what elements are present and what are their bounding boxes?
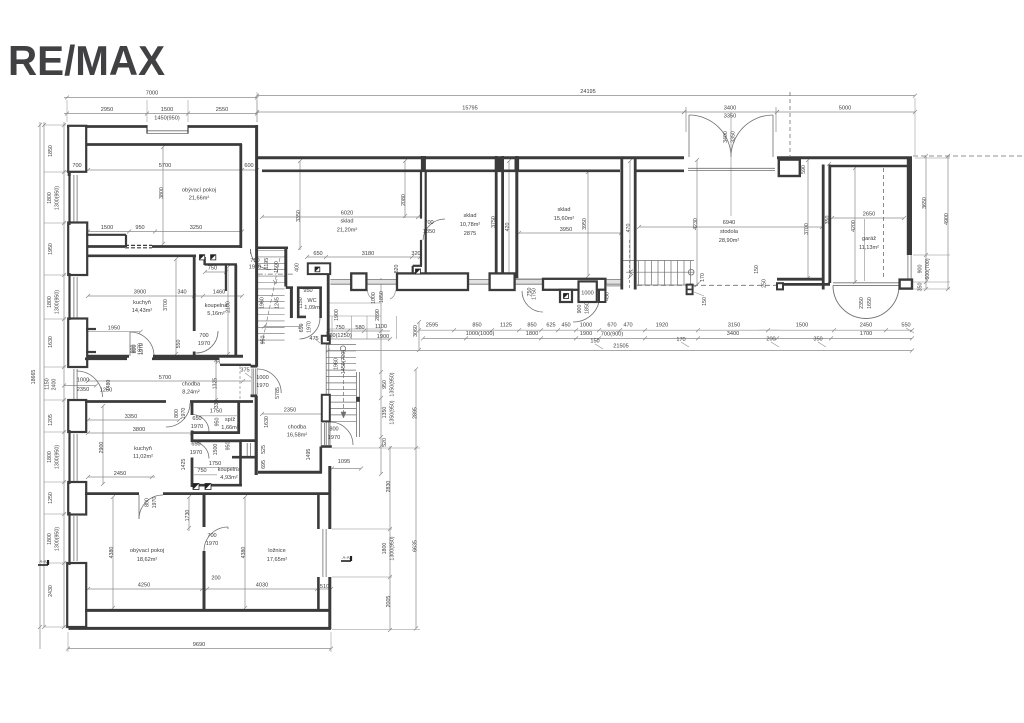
svg-text:16,58m²: 16,58m² (287, 433, 308, 439)
svg-text:10,78m²: 10,78m² (460, 222, 481, 228)
svg-text:800: 800 (174, 409, 180, 418)
svg-text:950: 950 (303, 288, 312, 294)
svg-text:2890: 2890 (375, 309, 381, 321)
svg-text:150: 150 (754, 265, 760, 274)
svg-text:1000: 1000 (371, 292, 377, 304)
svg-text:650: 650 (299, 324, 305, 333)
svg-text:550: 550 (176, 340, 182, 349)
svg-text:150: 150 (702, 297, 708, 306)
svg-text:3400: 3400 (724, 106, 736, 112)
svg-text:4900: 4900 (944, 213, 950, 225)
svg-text:1650: 1650 (867, 297, 873, 309)
svg-text:1,66m²: 1,66m² (221, 425, 239, 431)
svg-text:21,20m²: 21,20m² (337, 228, 358, 234)
svg-text:1970: 1970 (139, 343, 145, 355)
svg-text:5,16m²: 5,16m² (207, 311, 225, 317)
svg-text:3180: 3180 (362, 251, 374, 257)
svg-text:950(1250): 950(1250) (326, 333, 352, 339)
svg-text:2830: 2830 (386, 481, 392, 493)
svg-text:1800: 1800 (47, 296, 53, 308)
svg-text:4200: 4200 (851, 220, 857, 232)
svg-text:1300(950): 1300(950) (55, 527, 61, 551)
svg-text:1300(950): 1300(950) (55, 445, 61, 469)
svg-text:sklad: sklad (340, 219, 353, 225)
svg-text:375: 375 (240, 368, 249, 374)
svg-text:4380: 4380 (109, 547, 115, 559)
svg-text:800: 800 (132, 345, 138, 354)
svg-text:850: 850 (527, 323, 536, 329)
svg-text:1100: 1100 (375, 324, 387, 330)
svg-text:1095: 1095 (338, 459, 350, 465)
svg-text:2400: 2400 (52, 379, 58, 391)
svg-text:3150: 3150 (728, 323, 740, 329)
svg-text:2550: 2550 (216, 107, 228, 113)
svg-text:950: 950 (382, 380, 388, 389)
svg-text:21,66m²: 21,66m² (189, 196, 210, 202)
svg-text:625: 625 (546, 323, 555, 329)
svg-text:2080: 2080 (401, 194, 407, 206)
svg-text:200: 200 (211, 576, 220, 582)
svg-text:1800: 1800 (382, 543, 388, 555)
svg-text:21505: 21505 (613, 344, 629, 350)
svg-text:3800: 3800 (159, 187, 165, 199)
svg-text:2430: 2430 (48, 585, 54, 597)
svg-text:1325: 1325 (213, 378, 219, 390)
svg-text:1500: 1500 (101, 225, 113, 231)
svg-text:1125: 1125 (500, 323, 512, 329)
svg-text:450: 450 (605, 292, 611, 301)
svg-text:1970: 1970 (249, 265, 261, 271)
svg-text:250: 250 (762, 279, 768, 288)
svg-text:590: 590 (801, 165, 807, 174)
svg-text:1750: 1750 (532, 288, 538, 300)
svg-text:400: 400 (295, 263, 301, 272)
svg-text:650: 650 (191, 442, 200, 448)
svg-text:650: 650 (313, 251, 322, 257)
svg-text:800: 800 (145, 498, 151, 507)
svg-text:1850: 1850 (423, 229, 435, 235)
svg-text:1000: 1000 (580, 323, 592, 329)
svg-text:2005: 2005 (386, 596, 392, 608)
svg-text:4250: 4250 (138, 583, 150, 589)
svg-text:stodola: stodola (720, 229, 739, 235)
svg-text:A-A: A-A (40, 559, 47, 564)
svg-text:1150: 1150 (45, 378, 51, 389)
svg-text:2595: 2595 (426, 323, 438, 329)
svg-text:2875: 2875 (464, 231, 476, 237)
svg-text:kuchyň: kuchyň (134, 446, 152, 452)
svg-text:1970: 1970 (198, 341, 210, 347)
svg-text:1970: 1970 (190, 450, 202, 456)
svg-text:950: 950 (226, 442, 232, 451)
svg-text:170: 170 (700, 273, 706, 282)
svg-text:WC: WC (307, 298, 316, 304)
svg-text:450: 450 (561, 323, 570, 329)
svg-text:11,13m²: 11,13m² (859, 245, 879, 251)
svg-text:obývací pokoj: obývací pokoj (182, 188, 216, 194)
svg-text:350: 350 (918, 283, 924, 292)
svg-text:600(700): 600(700) (925, 258, 931, 279)
svg-text:9690: 9690 (193, 642, 205, 648)
svg-text:2450: 2450 (114, 471, 126, 477)
svg-text:3400: 3400 (723, 131, 729, 143)
svg-text:3350: 3350 (296, 210, 302, 222)
svg-text:150: 150 (590, 339, 599, 345)
svg-text:700: 700 (207, 533, 216, 539)
svg-text:700: 700 (424, 220, 433, 226)
svg-text:2350: 2350 (284, 408, 296, 414)
svg-text:1,09m²: 1,09m² (304, 305, 322, 311)
svg-text:550: 550 (901, 323, 910, 329)
svg-text:475: 475 (309, 336, 318, 342)
svg-text:1000(1000): 1000(1000) (466, 331, 495, 337)
svg-text:3950: 3950 (582, 218, 588, 230)
svg-text:420: 420 (505, 223, 511, 232)
svg-text:900: 900 (918, 265, 924, 274)
svg-text:chodba: chodba (288, 425, 307, 431)
svg-text:1500: 1500 (161, 107, 173, 113)
svg-text:5785: 5785 (275, 387, 281, 399)
svg-text:1970: 1970 (256, 383, 268, 389)
svg-text:1000: 1000 (256, 375, 268, 381)
svg-text:750: 750 (197, 468, 206, 474)
svg-text:6635: 6635 (413, 540, 419, 552)
svg-text:1500: 1500 (213, 444, 219, 456)
svg-text:A-A: A-A (343, 555, 350, 560)
svg-text:1960: 1960 (260, 297, 266, 309)
svg-text:900: 900 (577, 305, 583, 314)
svg-text:1205: 1205 (48, 414, 54, 426)
svg-text:24195: 24195 (580, 89, 596, 95)
svg-text:1000: 1000 (581, 291, 593, 297)
svg-text:7000: 7000 (146, 91, 158, 97)
svg-text:RE/MAX: RE/MAX (8, 37, 165, 84)
svg-text:2450: 2450 (860, 323, 872, 329)
svg-text:2100: 2100 (226, 301, 232, 313)
svg-text:1800: 1800 (47, 451, 53, 463)
svg-text:1450(700): 1450(700) (341, 350, 347, 374)
svg-text:3900: 3900 (134, 290, 146, 296)
svg-text:1630: 1630 (48, 336, 54, 348)
svg-text:820: 820 (394, 265, 400, 274)
svg-text:kuchyň: kuchyň (133, 300, 151, 306)
svg-text:28,90m²: 28,90m² (719, 238, 740, 244)
svg-text:1800: 1800 (47, 192, 53, 204)
svg-text:3350: 3350 (731, 131, 737, 143)
svg-text:650: 650 (192, 416, 201, 422)
svg-text:garáž: garáž (862, 236, 876, 242)
svg-text:800: 800 (329, 427, 338, 433)
svg-text:4230: 4230 (693, 218, 699, 230)
svg-text:3950: 3950 (560, 227, 572, 233)
svg-text:2900: 2900 (99, 442, 105, 454)
svg-text:200: 200 (766, 337, 775, 343)
svg-text:3350: 3350 (125, 414, 137, 420)
svg-text:14,43m²: 14,43m² (132, 308, 153, 314)
svg-text:350: 350 (813, 337, 822, 343)
svg-text:700(900): 700(900) (601, 332, 624, 338)
svg-text:6020: 6020 (341, 211, 353, 217)
svg-text:1700: 1700 (860, 331, 872, 337)
svg-text:525: 525 (261, 445, 267, 454)
svg-text:1970: 1970 (152, 497, 158, 509)
svg-text:1950: 1950 (48, 243, 54, 255)
svg-text:8,24m²: 8,24m² (182, 390, 200, 396)
svg-text:1300(950): 1300(950) (55, 186, 61, 210)
svg-text:330: 330 (214, 400, 220, 409)
svg-text:950: 950 (261, 336, 267, 345)
svg-text:11,02m²: 11,02m² (133, 454, 153, 460)
svg-text:3400: 3400 (727, 331, 739, 337)
svg-text:2895: 2895 (413, 407, 419, 419)
svg-text:6940: 6940 (723, 220, 735, 226)
svg-text:695: 695 (261, 460, 267, 469)
svg-text:950: 950 (135, 225, 144, 231)
svg-text:5700: 5700 (159, 375, 171, 381)
svg-text:600: 600 (244, 163, 253, 169)
svg-text:3060: 3060 (413, 325, 419, 337)
svg-text:1450(950): 1450(950) (154, 116, 180, 122)
svg-text:1425: 1425 (181, 459, 187, 471)
svg-text:4,93m²: 4,93m² (220, 475, 238, 481)
svg-text:17,65m²: 17,65m² (267, 557, 288, 563)
svg-text:1300(950): 1300(950) (390, 536, 396, 560)
svg-text:1800: 1800 (47, 533, 53, 545)
svg-text:5000: 5000 (839, 106, 851, 112)
svg-text:950: 950 (215, 418, 221, 427)
svg-text:2350: 2350 (859, 297, 865, 309)
svg-text:1970: 1970 (191, 424, 203, 430)
svg-text:1850: 1850 (585, 302, 591, 314)
svg-text:4380: 4380 (241, 547, 247, 559)
svg-text:18665: 18665 (31, 370, 37, 385)
svg-text:750: 750 (335, 325, 344, 331)
svg-text:580: 580 (355, 325, 364, 331)
svg-text:1495: 1495 (306, 449, 312, 461)
svg-text:340: 340 (177, 290, 186, 296)
svg-text:750: 750 (208, 265, 217, 271)
svg-text:1630: 1630 (264, 416, 270, 428)
svg-text:1195: 1195 (264, 258, 270, 269)
svg-text:1500: 1500 (796, 323, 808, 329)
svg-text:700: 700 (72, 163, 81, 169)
svg-text:1960: 1960 (334, 358, 340, 370)
svg-text:1000: 1000 (77, 378, 89, 384)
svg-text:3700: 3700 (804, 223, 810, 235)
svg-text:chodba: chodba (182, 382, 201, 388)
svg-text:1920: 1920 (656, 323, 668, 329)
svg-text:1970: 1970 (307, 321, 313, 333)
svg-text:670: 670 (607, 323, 616, 329)
svg-text:5700: 5700 (159, 163, 171, 169)
svg-text:1800: 1800 (526, 331, 538, 337)
svg-text:spíž: spíž (225, 417, 235, 423)
svg-text:1150: 1150 (298, 297, 304, 308)
svg-text:1460: 1460 (213, 290, 225, 296)
svg-text:sklad: sklad (557, 207, 570, 213)
svg-text:1350(950): 1350(950) (390, 400, 396, 424)
svg-text:3750: 3750 (491, 216, 497, 228)
svg-text:1970: 1970 (181, 408, 187, 420)
svg-text:sklad: sklad (463, 213, 476, 219)
svg-text:ložnice: ložnice (268, 548, 285, 554)
svg-text:350: 350 (825, 216, 831, 225)
svg-text:3250: 3250 (190, 225, 202, 231)
svg-text:1730: 1730 (185, 510, 191, 522)
svg-text:470: 470 (623, 323, 632, 329)
svg-text:3650: 3650 (922, 197, 928, 209)
svg-text:1850: 1850 (379, 291, 385, 303)
svg-text:15,60m²: 15,60m² (554, 216, 575, 222)
svg-text:1900: 1900 (334, 309, 340, 321)
svg-text:1480: 1480 (106, 380, 112, 392)
svg-text:1350(950): 1350(950) (390, 372, 396, 396)
svg-text:700: 700 (199, 333, 208, 339)
svg-text:18,62m²: 18,62m² (137, 557, 158, 563)
svg-text:2650: 2650 (863, 212, 875, 218)
svg-text:1245: 1245 (275, 297, 281, 309)
svg-text:1900: 1900 (377, 334, 389, 340)
svg-text:1300(950): 1300(950) (55, 290, 61, 314)
svg-text:4030: 4030 (256, 583, 268, 589)
svg-text:3350: 3350 (724, 114, 736, 120)
svg-text:1970: 1970 (328, 435, 340, 441)
svg-text:3800: 3800 (133, 427, 145, 433)
svg-text:1970: 1970 (206, 541, 218, 547)
svg-text:330: 330 (216, 355, 222, 364)
svg-text:520: 520 (382, 438, 388, 447)
svg-text:15795: 15795 (462, 106, 478, 112)
svg-text:2950: 2950 (101, 107, 113, 113)
svg-text:1900: 1900 (580, 331, 592, 337)
svg-text:3700: 3700 (163, 299, 169, 311)
svg-text:1350: 1350 (382, 407, 388, 419)
svg-text:obývací pokoj: obývací pokoj (130, 548, 164, 554)
svg-text:koupelna: koupelna (218, 467, 242, 473)
svg-text:750: 750 (250, 258, 259, 264)
svg-text:320: 320 (411, 251, 420, 257)
svg-text:1500: 1500 (274, 261, 280, 273)
svg-text:850: 850 (472, 323, 481, 329)
svg-text:1850: 1850 (48, 145, 54, 157)
svg-text:1250: 1250 (48, 492, 54, 504)
svg-text:510: 510 (320, 584, 329, 590)
svg-text:2350: 2350 (77, 387, 89, 393)
svg-text:koupelna: koupelna (205, 303, 229, 309)
svg-text:1950: 1950 (108, 325, 120, 331)
svg-text:470: 470 (626, 224, 632, 233)
